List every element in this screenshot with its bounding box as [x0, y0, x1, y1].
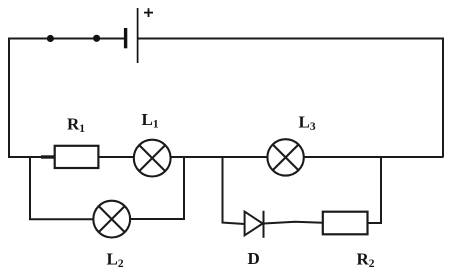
wire R1 to L1 [99, 156, 134, 158]
svg-text:L1: L1 [142, 110, 159, 131]
wire L3 to right [304, 156, 443, 158]
wire left vertical [8, 38, 10, 159]
svg-text:L2: L2 [107, 250, 124, 271]
wire right vertical [442, 38, 444, 158]
wire L2 branch right vertical [183, 157, 185, 220]
wire diode branch vertical [222, 157, 224, 223]
lamp L1 [134, 140, 171, 177]
wire L2 branch right horizontal [130, 218, 184, 220]
resistor R1 [55, 146, 99, 168]
wire thick lead into R1 [41, 155, 55, 158]
wire R2 to right vertical [368, 222, 382, 224]
wire D to R2 [264, 222, 323, 224]
battery B1 [126, 8, 138, 63]
diode D [245, 211, 264, 238]
lamp L2 [93, 201, 130, 238]
battery + label [144, 8, 153, 17]
lamp L3 [267, 139, 303, 175]
wire L1 to L3 [171, 156, 268, 158]
svg-text:R1: R1 [67, 115, 85, 136]
wire top-right horizontal [138, 38, 443, 40]
wire diode branch to D [222, 223, 245, 225]
node junction dot 1 [47, 35, 54, 42]
resistor R2 [323, 212, 368, 235]
wire R2 branch right vertical [380, 157, 382, 224]
wire top-left horizontal [9, 38, 125, 40]
svg-text:L3: L3 [299, 113, 316, 134]
svg-text:D: D [248, 249, 260, 268]
wire middle left segment [8, 156, 55, 158]
wire L2 branch left horizontal [29, 218, 93, 220]
svg-text:R2: R2 [357, 250, 375, 271]
wire L2 branch left vertical [29, 157, 31, 219]
node junction dot 2 [93, 35, 100, 42]
